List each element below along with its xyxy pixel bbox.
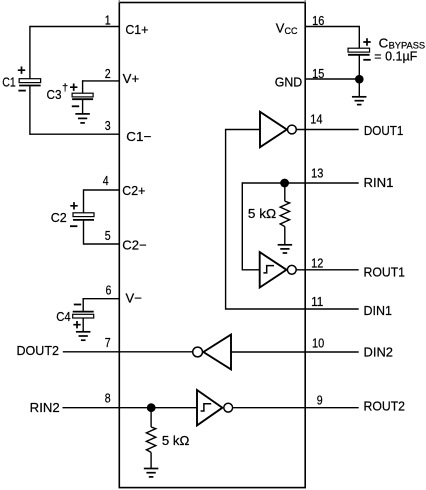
IC body U1 bbox=[119, 3, 305, 488]
svg-text:V+: V+ bbox=[123, 71, 140, 86]
svg-text:2: 2 bbox=[105, 66, 111, 81]
wire pin6 V- bbox=[83, 298, 119, 300]
svg-text:†: † bbox=[62, 82, 68, 94]
svg-text:14: 14 bbox=[310, 112, 322, 127]
wire RIN1 dot to resistor R1 bbox=[284, 183, 286, 201]
svg-text:C1: C1 bbox=[2, 74, 16, 89]
svg-text:ROUT1: ROUT1 bbox=[364, 265, 406, 280]
wire C2 loop vertical lower bbox=[83, 220, 85, 245]
node dot RIN1 bbox=[280, 179, 289, 188]
driver U1A triangle bbox=[260, 112, 287, 147]
svg-text:13: 13 bbox=[311, 166, 323, 181]
svg-text:5: 5 bbox=[105, 228, 111, 243]
wire pin7 DOUT2 (through box to driver2 bubble) bbox=[63, 351, 193, 353]
wire C1 loop vertical upper bbox=[29, 26, 31, 79]
capacitor C1 bbox=[2, 67, 40, 91]
wire C1 loop vertical lower bbox=[29, 86, 31, 135]
svg-text:C2−: C2− bbox=[122, 238, 146, 253]
wire R1 to ground bbox=[284, 227, 286, 245]
wire pin8 RIN2 (through box to receiver2 input) bbox=[63, 407, 198, 409]
wire CBYPASS to node bbox=[358, 55, 360, 97]
capacitor C3 bbox=[47, 82, 94, 107]
wire R2 to ground bbox=[150, 452, 152, 468]
ground under R1 bbox=[278, 245, 293, 253]
wire pin12 ROUT1 bbox=[296, 269, 359, 271]
svg-text:V: V bbox=[276, 21, 285, 36]
svg-text:RIN1: RIN1 bbox=[364, 175, 394, 190]
svg-text:DOUT1: DOUT1 bbox=[364, 123, 404, 138]
driver U1B bubble bbox=[193, 347, 203, 357]
svg-text:11: 11 bbox=[311, 294, 323, 309]
svg-text:C2: C2 bbox=[51, 210, 67, 225]
svg-text:CC: CC bbox=[285, 26, 298, 37]
svg-text:C1−: C1− bbox=[126, 129, 151, 144]
wire C2 loop vertical upper bbox=[83, 189, 85, 213]
svg-text:10: 10 bbox=[312, 336, 324, 351]
receiver U1C triangle bbox=[260, 252, 287, 287]
node dot GND/CBYPASS bbox=[355, 75, 364, 84]
tick above top-left corner bbox=[118, 0, 120, 3]
resistor R2 5k zigzag bbox=[146, 427, 155, 452]
wire pin1 C1+ bbox=[30, 26, 119, 28]
capacitor C2 bbox=[51, 202, 94, 226]
svg-text:V−: V− bbox=[126, 291, 142, 306]
svg-text:GND: GND bbox=[275, 74, 303, 89]
svg-text:RIN2: RIN2 bbox=[30, 400, 60, 415]
svg-text:ROUT2: ROUT2 bbox=[364, 399, 406, 414]
svg-text:DIN2: DIN2 bbox=[364, 345, 394, 360]
wire pin14 DOUT1 bbox=[296, 129, 358, 131]
svg-text:C1+: C1+ bbox=[125, 22, 148, 37]
node dot RIN2 bbox=[147, 403, 156, 412]
wire C4 to ground bbox=[82, 318, 84, 331]
svg-text:9: 9 bbox=[317, 393, 323, 408]
svg-text:6: 6 bbox=[106, 283, 112, 298]
wire pin15 GND bbox=[305, 78, 359, 80]
svg-text:DIN1: DIN1 bbox=[364, 303, 393, 318]
wire pin2 V+ bbox=[83, 80, 120, 82]
svg-text:8: 8 bbox=[105, 391, 111, 406]
wire RIN2 dot to resistor R2 bbox=[150, 408, 152, 427]
wire pin5 C2- bbox=[84, 243, 120, 245]
ground under C3 bbox=[75, 114, 90, 123]
driver U1A bubble bbox=[288, 125, 297, 134]
capacitor CBYPASS bbox=[348, 35, 425, 63]
resistor R1 5k zigzag bbox=[280, 201, 289, 226]
ground under C4 bbox=[76, 332, 91, 340]
svg-text:DOUT2: DOUT2 bbox=[17, 343, 60, 358]
wire DIN1 input path (pin11 to driver1) bbox=[226, 130, 359, 310]
svg-text:= 0.1µF: = 0.1µF bbox=[374, 48, 417, 63]
wire pin13 RIN1 bbox=[242, 182, 358, 184]
svg-text:3: 3 bbox=[105, 118, 111, 133]
svg-text:C4: C4 bbox=[56, 309, 70, 324]
svg-text:16: 16 bbox=[312, 13, 324, 28]
wire pin16 VCC bbox=[305, 27, 359, 49]
wire pin9 ROUT2 bbox=[233, 407, 359, 409]
receiver U1C bubble bbox=[287, 265, 296, 274]
svg-text:4: 4 bbox=[103, 173, 109, 188]
wire pin4 C2+ bbox=[84, 189, 120, 191]
ground under CBYPASS bbox=[352, 97, 367, 105]
svg-text:C3: C3 bbox=[47, 87, 62, 102]
capacitor C4 (reversed polarity) bbox=[56, 305, 93, 329]
driver U1B triangle (points left) bbox=[203, 335, 231, 370]
schmitt glyph receiver1 bbox=[263, 266, 274, 273]
ground under R2 bbox=[144, 469, 159, 477]
svg-text:1: 1 bbox=[105, 12, 111, 27]
svg-text:15: 15 bbox=[312, 66, 324, 81]
wire pin3 C1- bbox=[30, 133, 119, 135]
svg-text:7: 7 bbox=[105, 335, 111, 350]
wire receiver1 input path bbox=[242, 182, 259, 269]
receiver U1D triangle bbox=[197, 390, 222, 425]
svg-text:12: 12 bbox=[311, 256, 323, 271]
svg-text:C2+: C2+ bbox=[122, 183, 145, 198]
svg-text:5 kΩ: 5 kΩ bbox=[162, 433, 190, 448]
schmitt glyph receiver2 bbox=[201, 404, 212, 411]
tick above top-right corner bbox=[304, 0, 306, 3]
receiver U1D bubble bbox=[224, 403, 233, 412]
wire pin10 DIN2 bbox=[231, 351, 359, 353]
wire V+ drop to C3 bbox=[82, 80, 84, 93]
wire C3 to ground bbox=[82, 99, 84, 113]
svg-text:5 kΩ: 5 kΩ bbox=[248, 206, 277, 221]
wire V- drop to C4 bbox=[82, 298, 84, 312]
